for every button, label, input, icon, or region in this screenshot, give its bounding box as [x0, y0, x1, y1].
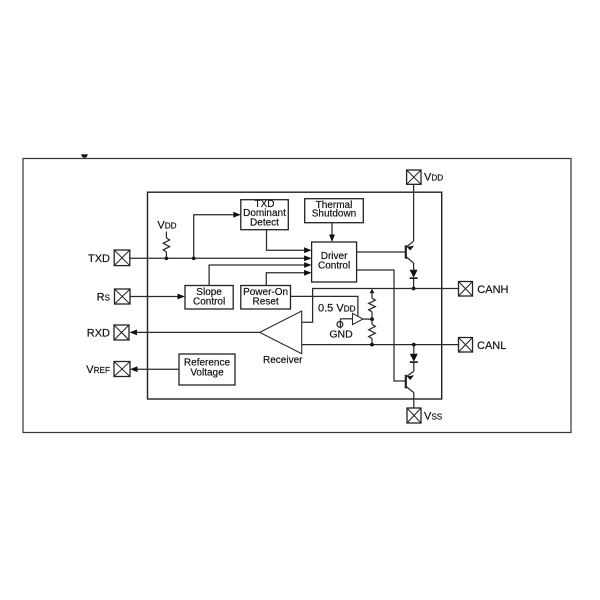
- pin VSS: [407, 408, 443, 423]
- svg-text:VDD: VDD: [157, 219, 176, 231]
- junction: TXD line / branch to TXD Dominant Detect: [192, 257, 196, 261]
- diode: CANL series: [410, 354, 418, 362]
- resistor: divider upper (CANH side): [369, 291, 376, 319]
- ground symbol (GND reference): [337, 319, 343, 329]
- wire: TXD pin to Driver Control: [130, 255, 312, 261]
- transistor: CANL low-side driver (PNP): [406, 371, 414, 392]
- svg-text:CANH: CANH: [477, 284, 508, 296]
- wire: VDD pin to CANH driver emitter: [413, 184, 415, 241]
- svg-text:Reset: Reset: [253, 296, 279, 307]
- pin CANH: [459, 282, 509, 297]
- wire: TXD node to TXD Dominant Detect: [194, 212, 241, 258]
- buffer amp (0.5 VDD reference): [340, 313, 372, 324]
- pin RXD: [87, 325, 129, 340]
- IC boundary box: [148, 192, 442, 399]
- resistor: TXD pull-up to VDD: [163, 232, 169, 259]
- wire: Slope Control to Driver Control: [209, 262, 312, 285]
- junction: TXD line / pull-up resistor: [165, 257, 169, 261]
- transistor: CANH high-side driver (PNP): [406, 241, 414, 263]
- svg-text:VSS: VSS: [424, 411, 443, 423]
- diode: CANH series: [410, 270, 418, 278]
- junction: CANL line / diode chain: [412, 343, 416, 347]
- wire: diode to CANH line: [413, 278, 415, 288]
- svg-text:Control: Control: [318, 261, 350, 272]
- receiver comparator: [260, 311, 302, 354]
- pin VDD: [407, 170, 444, 184]
- svg-text:Shutdown: Shutdown: [312, 209, 356, 220]
- svg-text:RXD: RXD: [87, 328, 110, 340]
- pin Rs: [97, 289, 130, 304]
- wire: Driver Control to CANH driver base: [357, 251, 405, 253]
- pin CANL: [459, 338, 507, 353]
- svg-text:Receiver: Receiver: [263, 355, 303, 366]
- wire: CANL line (pin to receiver input): [302, 344, 459, 346]
- block: Reference Voltage: [179, 354, 235, 385]
- svg-text:GND: GND: [329, 329, 353, 341]
- svg-text:0.5 VDD: 0.5 VDD: [318, 302, 356, 314]
- wire: Rs pin to Slope Control: [130, 294, 185, 300]
- svg-text:VDD: VDD: [424, 172, 443, 184]
- junction: CANL line / divider resistor: [370, 343, 374, 347]
- wire: CANH line (pin to receiver input): [302, 289, 459, 323]
- svg-text:VREF: VREF: [86, 364, 110, 376]
- pin TXD: [88, 250, 130, 266]
- svg-text:Control: Control: [193, 296, 225, 307]
- block: Driver Control: [312, 242, 357, 282]
- resistor: divider lower (CANL side): [369, 319, 376, 344]
- wire: receiver output to RXD pin: [130, 330, 260, 336]
- wire: CANL line to series diode: [413, 345, 415, 354]
- svg-text:TXD: TXD: [88, 253, 110, 265]
- stray ink blob (clipped text above frame): [81, 154, 87, 157]
- pin VREF: [86, 362, 130, 377]
- junction: divider midpoint / buffer output: [370, 317, 374, 321]
- wire: CANL driver collector to VSS pin: [413, 393, 415, 408]
- wire: Thermal Shutdown to Driver Control: [329, 223, 335, 242]
- block: TXD Dominant Detect: [241, 199, 288, 230]
- wire: Power-On Reset to Driver Control: [266, 270, 311, 286]
- svg-text:CANL: CANL: [477, 340, 506, 352]
- block: Power-On Reset: [241, 286, 291, 310]
- junction: diode chain / CANH line: [412, 287, 416, 291]
- svg-text:Detect: Detect: [250, 218, 279, 229]
- junction: CANH line / divider resistor (arrow tap): [370, 289, 375, 293]
- block: Thermal Shutdown: [305, 199, 364, 223]
- wire: Power-On Reset to 0.5 VDD buffer: [291, 296, 358, 315]
- wire: Driver Control to CANL driver base: [357, 270, 405, 381]
- wire: diode to CANL driver emitter: [413, 362, 415, 371]
- wire: Reference Voltage to VREF pin: [130, 366, 179, 372]
- wire: TXD Dominant Detect to Driver Control: [267, 230, 312, 253]
- svg-text:RS: RS: [97, 291, 111, 303]
- block: Slope Control: [185, 286, 233, 310]
- wire: CANH driver collector to series diode: [413, 263, 415, 270]
- svg-text:Voltage: Voltage: [190, 368, 224, 379]
